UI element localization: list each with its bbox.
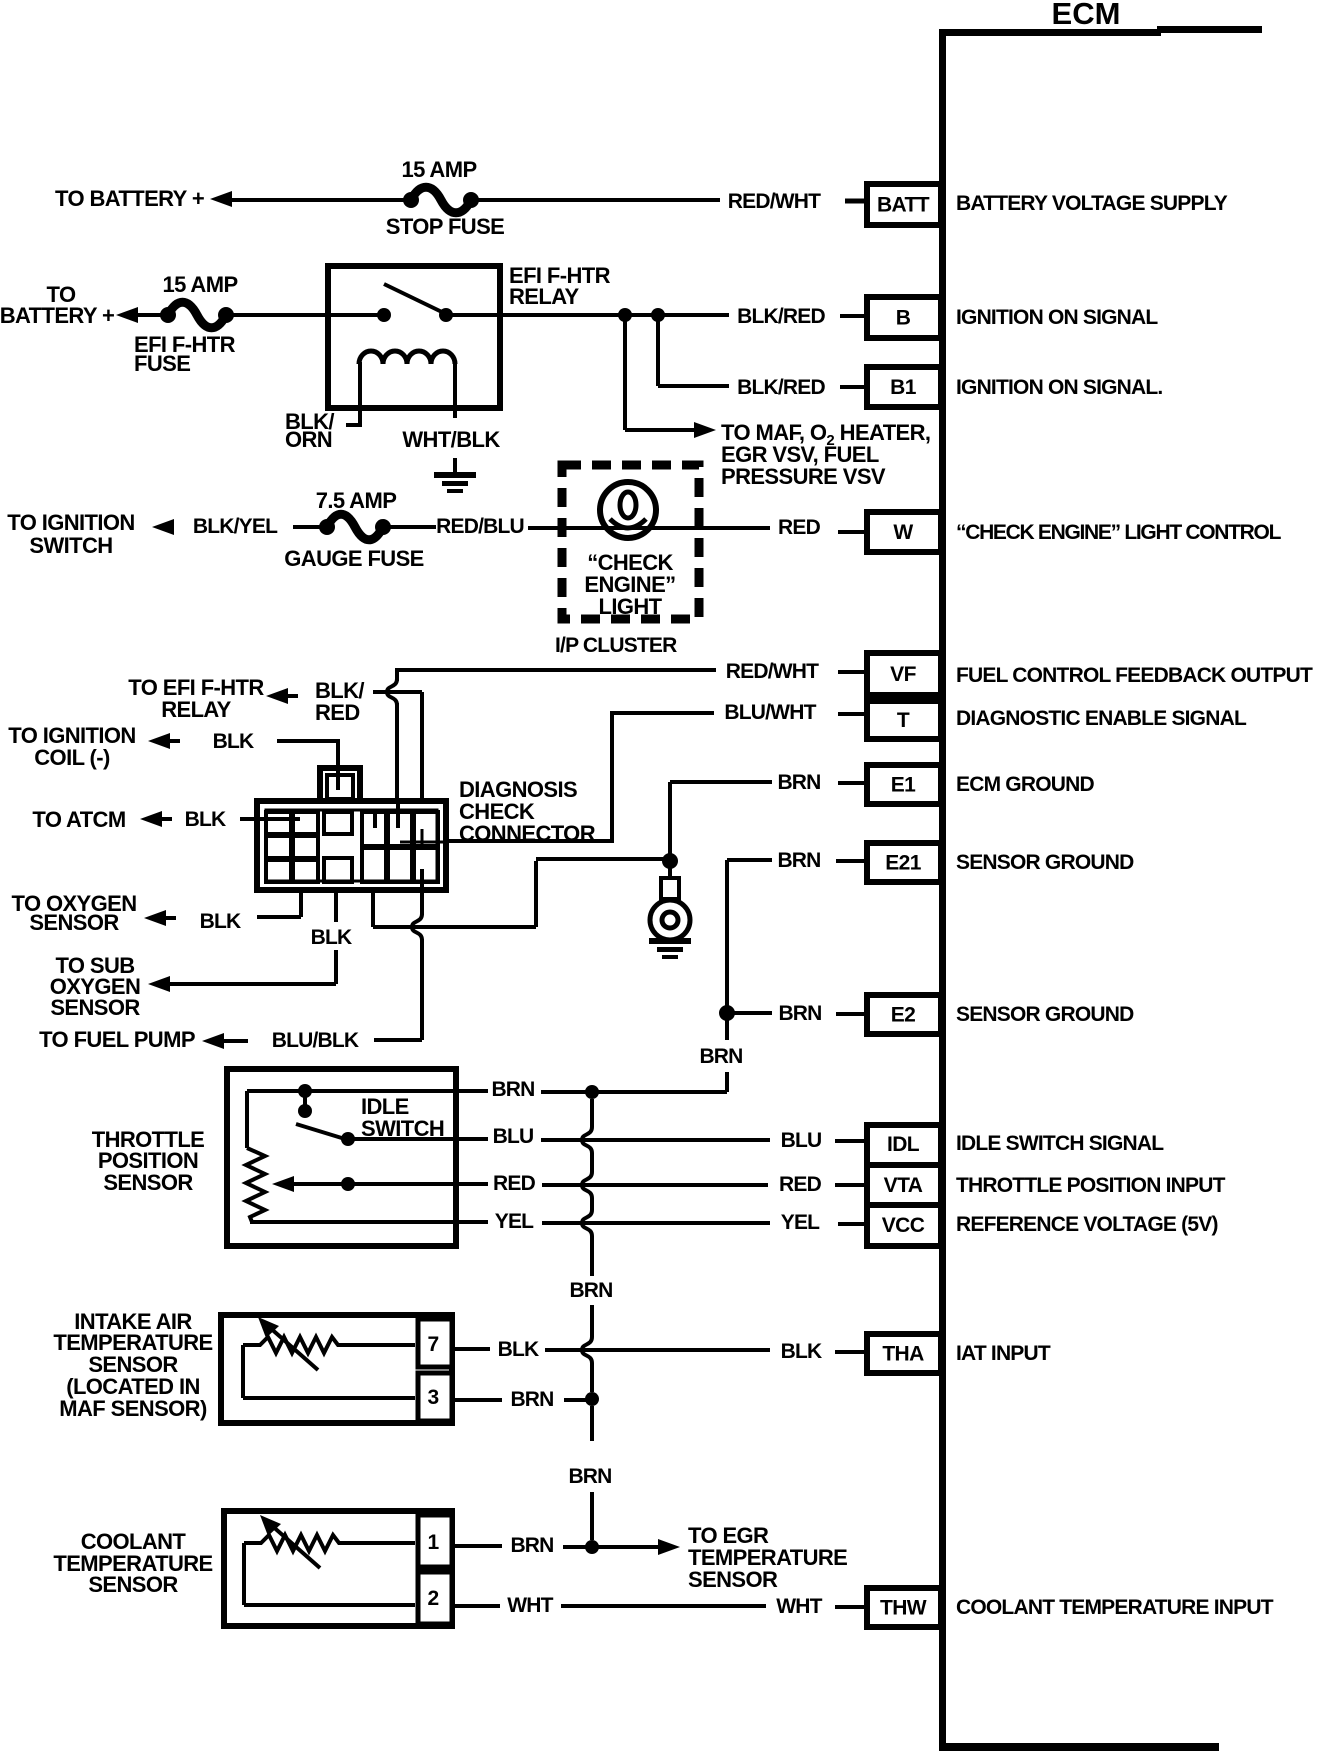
wire E2 BRN — [733, 1011, 772, 1015]
check engine lamp bulb — [600, 482, 656, 538]
ECM pin THA — [867, 1334, 941, 1373]
svg-text:RELAY: RELAY — [161, 697, 231, 722]
relay EFI F-HTR box — [328, 266, 500, 408]
wire E1 elbow down — [668, 782, 672, 854]
svg-text:BLK/RED: BLK/RED — [737, 376, 825, 399]
svg-text:B: B — [896, 307, 911, 330]
coolant sensor box — [224, 1511, 452, 1626]
IAT thermistor arrow — [268, 1326, 318, 1370]
wire connector to condenser — [371, 893, 375, 927]
arrow to ignition coil — [148, 733, 170, 749]
ECM pin E2 — [867, 995, 941, 1034]
hop VF vertical over BLK/RED wire — [387, 679, 397, 705]
ECM pin T — [867, 701, 941, 739]
svg-text:RED: RED — [493, 1172, 536, 1195]
svg-text:BRN: BRN — [569, 1279, 612, 1302]
connector left cell grid — [266, 812, 291, 834]
svg-text:E1: E1 — [891, 774, 916, 797]
hop fuel pump wire over condenser wire — [412, 914, 422, 940]
svg-text:VCC: VCC — [882, 1214, 925, 1237]
wire VF vertical to connector — [395, 703, 399, 800]
svg-text:BLK/RED: BLK/RED — [737, 305, 825, 328]
svg-text:BLU: BLU — [781, 1129, 822, 1152]
arrow to ATCM — [140, 811, 162, 827]
svg-text:SENSOR: SENSOR — [88, 1572, 178, 1597]
wire E1 BRN — [670, 780, 772, 784]
svg-text:THROTTLE POSITION INPUT: THROTTLE POSITION INPUT — [956, 1174, 1226, 1197]
ECM pin E1 — [867, 765, 941, 804]
svg-text:CONNECTOR: CONNECTOR — [459, 821, 596, 846]
relay switch contacts — [331, 313, 378, 317]
svg-text:COIL (-): COIL (-) — [34, 745, 110, 770]
svg-text:BLK: BLK — [498, 1338, 539, 1361]
svg-text:TO IGNITION: TO IGNITION — [7, 510, 134, 535]
wire T elbow down to connector — [610, 711, 614, 841]
TPS idle switch contacts — [247, 1089, 459, 1093]
svg-text:WHT: WHT — [507, 1594, 553, 1617]
IAT thermistor — [243, 1337, 415, 1353]
connector middle cells — [324, 812, 352, 834]
diagnosis check connector outer shell — [257, 801, 446, 890]
junction node BRN IAT — [585, 1392, 599, 1406]
wire E21 vertical to E2 — [725, 860, 729, 1013]
svg-text:BRN: BRN — [777, 849, 820, 872]
svg-text:I/P CLUSTER: I/P CLUSTER — [555, 634, 677, 657]
svg-text:W: W — [893, 521, 913, 544]
svg-text:SENSOR: SENSOR — [29, 910, 119, 935]
TPS YEL wire — [250, 1220, 459, 1224]
wire through lamp to W pin — [528, 526, 770, 530]
arrow to fuel pump — [202, 1033, 224, 1049]
wire junction to B1 — [656, 315, 660, 386]
wire BRN TPS to junction — [459, 1089, 488, 1093]
lamp filament — [620, 492, 636, 518]
svg-text:RED: RED — [778, 516, 821, 539]
ECM pin THW — [867, 1588, 941, 1627]
wire relay to B pin — [452, 313, 729, 317]
svg-text:STOP FUSE: STOP FUSE — [386, 214, 505, 239]
svg-text:SENSOR GROUND: SENSOR GROUND — [956, 1003, 1134, 1026]
svg-text:RED: RED — [779, 1173, 822, 1196]
ground below relay — [453, 458, 457, 473]
junction node BRN coolant — [585, 1540, 599, 1554]
svg-text:2: 2 — [427, 1587, 438, 1610]
svg-text:IGNITION ON SIGNAL.: IGNITION ON SIGNAL. — [956, 376, 1162, 399]
svg-text:BLU: BLU — [493, 1125, 534, 1148]
wire fuse to relay — [230, 313, 331, 317]
fuse 7.5A gauge fuse — [319, 519, 335, 535]
svg-text:E21: E21 — [885, 852, 921, 875]
wire E2 stub below — [725, 1013, 729, 1040]
svg-text:THW: THW — [880, 1597, 927, 1620]
relay switch blade — [384, 284, 444, 313]
svg-text:RELAY: RELAY — [509, 284, 579, 309]
arrow to battery + — [210, 191, 232, 207]
svg-text:15 AMP: 15 AMP — [401, 157, 476, 182]
svg-text:BLK: BLK — [213, 730, 254, 753]
svg-text:7.5 AMP: 7.5 AMP — [316, 488, 397, 513]
wire battery to EFI fuse — [136, 313, 166, 317]
wire IDL BLU — [459, 1137, 488, 1141]
svg-text:SENSOR: SENSOR — [688, 1567, 778, 1592]
arrow to MAF — [694, 422, 716, 438]
TPS resistor zigzag — [246, 1148, 265, 1222]
svg-text:WHT/BLK: WHT/BLK — [402, 427, 500, 452]
wire THA BLK — [455, 1347, 490, 1351]
svg-text:BLK: BLK — [781, 1340, 822, 1363]
svg-text:ECM GROUND: ECM GROUND — [956, 773, 1094, 796]
svg-text:YEL: YEL — [495, 1210, 534, 1233]
coolant thermistor arrow — [270, 1524, 320, 1568]
arrow to sub oxygen sensor — [148, 976, 170, 992]
svg-text:VTA: VTA — [884, 1174, 923, 1197]
wire oxygen sensor BLK — [299, 891, 303, 917]
coolant pin cell 1 — [418, 1515, 452, 1567]
svg-text:LIGHT: LIGHT — [599, 594, 663, 619]
coolant pin cell 2 — [418, 1572, 452, 1624]
svg-text:SENSOR GROUND: SENSOR GROUND — [956, 851, 1134, 874]
svg-text:7: 7 — [427, 1333, 438, 1356]
TPS RED wire — [348, 1182, 459, 1186]
TPS idle switch blade — [296, 1124, 345, 1139]
svg-text:BRN: BRN — [777, 771, 820, 794]
svg-text:GAUGE FUSE: GAUGE FUSE — [284, 546, 423, 571]
ECM pin B — [867, 297, 941, 338]
relay coil — [359, 351, 455, 364]
svg-text:RED/WHT: RED/WHT — [728, 190, 821, 213]
svg-text:15 AMP: 15 AMP — [162, 272, 237, 297]
wire VCC YEL — [459, 1220, 488, 1224]
wire VTA RED — [459, 1182, 488, 1186]
svg-text:TO ATCM: TO ATCM — [32, 807, 125, 832]
svg-text:RED/WHT: RED/WHT — [726, 660, 819, 683]
svg-text:TO FUEL PUMP: TO FUEL PUMP — [39, 1027, 195, 1052]
svg-text:REFERENCE VOLTAGE (5V): REFERENCE VOLTAGE (5V) — [956, 1213, 1218, 1236]
junction node on B wire (right) — [651, 308, 665, 322]
I/P cluster dashed box — [562, 465, 699, 619]
ECM bottom boundary line — [939, 1743, 1219, 1751]
svg-text:RED: RED — [315, 700, 360, 725]
junction node E2 — [719, 1005, 735, 1021]
svg-text:WHT: WHT — [776, 1595, 822, 1618]
svg-text:IDL: IDL — [887, 1133, 920, 1156]
svg-text:SENSOR: SENSOR — [50, 995, 140, 1020]
ECM pin VF — [867, 653, 941, 695]
svg-text:BRN: BRN — [510, 1388, 553, 1411]
IAT sensor box — [221, 1315, 452, 1423]
arrow to EGR temperature sensor — [658, 1539, 680, 1555]
svg-text:BRN: BRN — [568, 1465, 611, 1488]
throttle position sensor box — [227, 1069, 456, 1246]
svg-text:B1: B1 — [890, 376, 917, 399]
ECM pins IDL VTA VCC block — [867, 1125, 941, 1246]
svg-text:BATTERY +: BATTERY + — [0, 303, 114, 328]
connector top protrusion — [320, 768, 360, 801]
fuse 15A stop fuse — [403, 192, 419, 208]
wire sub oxygen BLK lower — [334, 950, 338, 984]
svg-text:BLK/YEL: BLK/YEL — [193, 515, 278, 538]
arrow to oxygen sensor — [144, 910, 166, 926]
ECM left boundary line (vertical) — [939, 29, 946, 1751]
BRN net vertical with hops — [590, 1099, 594, 1127]
svg-text:BLU/WHT: BLU/WHT — [724, 701, 816, 724]
wire VF RED/WHT — [397, 668, 716, 672]
svg-text:BRN: BRN — [510, 1534, 553, 1557]
svg-text:VF: VF — [890, 663, 916, 686]
wire BLK/RED to connector — [373, 690, 422, 694]
svg-text:BLK: BLK — [185, 808, 226, 831]
svg-text:BATT: BATT — [877, 194, 930, 217]
wire gauge fuse to lamp — [388, 525, 436, 529]
svg-text:IAT INPUT: IAT INPUT — [956, 1342, 1051, 1365]
svg-text:3: 3 — [427, 1386, 438, 1409]
svg-text:PRESSURE VSV: PRESSURE VSV — [721, 464, 886, 489]
TPS BLU wire — [348, 1137, 459, 1141]
ECM top boundary line — [939, 29, 1161, 36]
wire BRN to EGR arrow — [598, 1545, 658, 1549]
ECM pin E21 — [867, 843, 941, 882]
wire sub oxygen BLK upper stub — [334, 891, 338, 922]
IAT pin cell 3 — [418, 1373, 452, 1421]
wire blkyel to gauge fuse — [293, 525, 327, 529]
node on BLU wire — [341, 1132, 355, 1146]
wire coolant WHT pin2 — [455, 1604, 500, 1608]
wire to MAF heater branch — [623, 315, 627, 430]
svg-text:DIAGNOSTIC ENABLE SIGNAL: DIAGNOSTIC ENABLE SIGNAL — [956, 707, 1247, 730]
node on RED wire — [341, 1177, 355, 1191]
svg-text:BLK: BLK — [200, 910, 241, 933]
svg-text:1: 1 — [427, 1531, 439, 1554]
ECM pin B1 — [867, 367, 941, 407]
ECM pin BATT — [867, 184, 941, 225]
svg-text:BLU/BLK: BLU/BLK — [272, 1029, 359, 1052]
wire T BLU/WHT — [612, 711, 714, 715]
relay coil left lead to BLK/ORN — [358, 362, 362, 425]
svg-text:SWITCH: SWITCH — [29, 533, 112, 558]
wire fuel pump BLU/BLK — [420, 869, 424, 915]
svg-text:COOLANT TEMPERATURE INPUT: COOLANT TEMPERATURE INPUT — [956, 1596, 1274, 1619]
IAT pin cell 7 — [418, 1319, 452, 1367]
wire BLK to connector protrusion — [277, 739, 340, 743]
arrow to EFI F-HTR relay — [266, 688, 288, 704]
arrow to battery 2 — [116, 307, 138, 323]
TPS wiper arrow — [290, 1182, 348, 1186]
svg-text:FUSE: FUSE — [134, 351, 190, 376]
fuse 15A EFI F-HTR fuse — [160, 307, 176, 323]
svg-text:T: T — [897, 709, 910, 732]
wire VF corner down — [395, 668, 399, 681]
svg-text:BRN: BRN — [491, 1078, 534, 1101]
svg-text:THA: THA — [882, 1343, 924, 1366]
wire E21 BRN — [727, 858, 772, 862]
TPS internal left wire — [245, 1091, 249, 1148]
svg-text:FUEL CONTROL FEEDBACK OUTPUT: FUEL CONTROL FEEDBACK OUTPUT — [956, 664, 1313, 687]
svg-text:IGNITION ON SIGNAL: IGNITION ON SIGNAL — [956, 306, 1158, 329]
svg-text:BATTERY VOLTAGE SUPPLY: BATTERY VOLTAGE SUPPLY — [956, 192, 1228, 215]
svg-text:YEL: YEL — [781, 1211, 820, 1234]
condenser noise filter to ground — [668, 861, 672, 877]
junction node condenser — [662, 853, 678, 869]
relay coil right lead — [453, 362, 457, 418]
svg-text:SENSOR: SENSOR — [103, 1170, 193, 1195]
svg-text:ORN: ORN — [285, 427, 332, 452]
svg-text:“CHECK ENGINE” LIGHT CONTROL: “CHECK ENGINE” LIGHT CONTROL — [956, 521, 1282, 544]
ECM pin W — [867, 512, 941, 552]
wire IAT BRN pin3 — [455, 1398, 502, 1402]
svg-text:IDLE SWITCH SIGNAL: IDLE SWITCH SIGNAL — [956, 1132, 1164, 1155]
junction node BRN TPS — [585, 1085, 599, 1099]
svg-text:TO BATTERY +: TO BATTERY + — [55, 186, 204, 211]
svg-text:BLK: BLK — [311, 926, 352, 949]
coolant thermistor — [244, 1535, 415, 1551]
svg-text:MAF SENSOR): MAF SENSOR) — [59, 1396, 207, 1421]
arrow to ignition switch (gauge) — [152, 519, 174, 535]
wire stop-fuse row to BATT — [228, 198, 406, 202]
junction node on B wire (left) — [618, 308, 632, 322]
svg-text:E2: E2 — [891, 1004, 916, 1027]
svg-text:RED/BLU: RED/BLU — [436, 515, 524, 538]
wire elbow BRN to TPS row — [725, 1072, 729, 1092]
svg-text:BRN: BRN — [699, 1045, 742, 1068]
connector right cell grid — [362, 812, 386, 846]
svg-text:BRN: BRN — [778, 1002, 821, 1025]
wire coolant BRN pin1 — [455, 1544, 502, 1548]
svg-text:ECM: ECM — [1052, 0, 1121, 31]
connector pin stubs — [336, 741, 340, 790]
